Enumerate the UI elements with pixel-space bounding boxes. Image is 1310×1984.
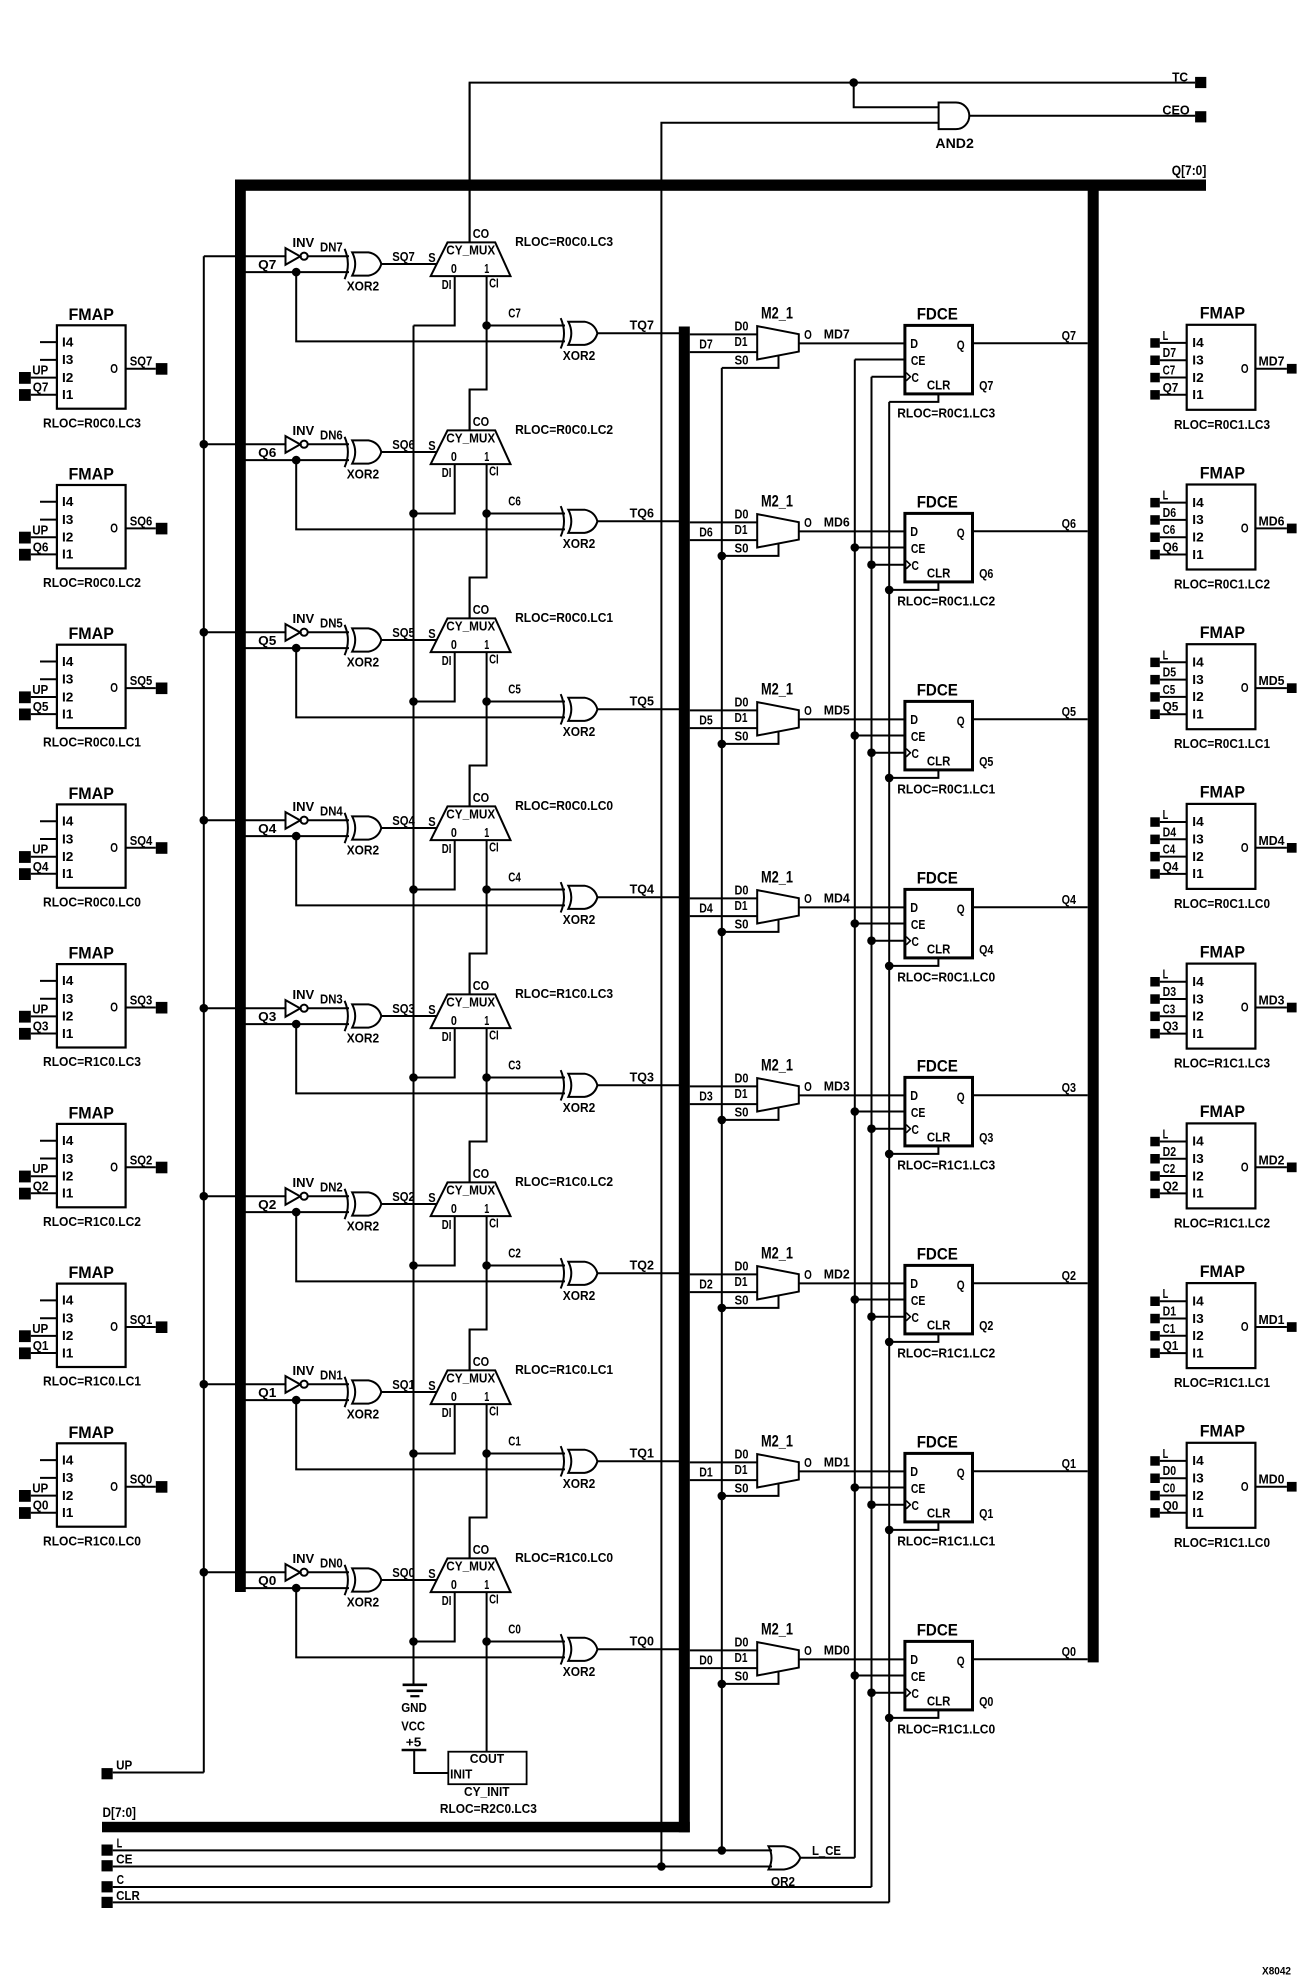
svg-text:FMAP: FMAP: [69, 1104, 114, 1122]
svg-text:MD5: MD5: [1259, 673, 1285, 688]
wire S0 to L rail: [722, 1296, 779, 1308]
svg-text:CI: CI: [489, 652, 499, 667]
svg-text:XOR2: XOR2: [563, 536, 596, 551]
svg-text:FMAP: FMAP: [69, 466, 114, 484]
mux M2_1 (MD3): [735, 1056, 812, 1119]
svg-text:D: D: [910, 1276, 918, 1291]
svg-text:D4: D4: [1163, 824, 1177, 839]
svg-text:L: L: [1163, 647, 1169, 662]
svg-text:UP: UP: [32, 1481, 48, 1496]
junction TC branch to AND2: [849, 78, 858, 87]
svg-text:XOR2: XOR2: [563, 1100, 596, 1115]
svg-text:D1: D1: [735, 522, 748, 537]
svg-text:1: 1: [484, 637, 489, 652]
svg-text:FDCE: FDCE: [917, 1058, 958, 1076]
svg-text:M2_1: M2_1: [761, 1432, 793, 1450]
svg-text:I1: I1: [62, 1026, 73, 1041]
svg-text:Q3: Q3: [1062, 1080, 1076, 1095]
svg-text:D0: D0: [735, 694, 749, 709]
terminal TC: [1195, 77, 1206, 88]
svg-text:SQ6: SQ6: [130, 513, 153, 528]
svg-text:C2: C2: [508, 1246, 521, 1261]
svg-text:O: O: [804, 515, 812, 530]
svg-text:Q1: Q1: [33, 1338, 49, 1353]
wire C from C rail to FDCE: [872, 564, 905, 566]
wire C from C rail to FDCE: [872, 1128, 905, 1130]
svg-text:XOR2: XOR2: [563, 724, 596, 739]
svg-text:CLR: CLR: [927, 566, 951, 581]
svg-text:CY_INIT: CY_INIT: [464, 1784, 510, 1799]
svg-text:Q6: Q6: [979, 566, 993, 581]
svg-text:I3: I3: [1192, 353, 1203, 368]
wire CI pin down to C3 junction: [486, 1028, 488, 1077]
svg-text:RLOC=R0C1.LC0: RLOC=R0C1.LC0: [897, 970, 995, 985]
svg-text:M2_1: M2_1: [761, 680, 793, 698]
wire DI pin to GND rail: [414, 1216, 455, 1265]
svg-text:M2_1: M2_1: [761, 492, 793, 510]
junction CLR rail row 4: [885, 962, 894, 971]
wire C from C rail to FDCE: [872, 1504, 905, 1506]
svg-text:MD0: MD0: [824, 1643, 850, 1658]
wire CI pin down to C6 junction: [486, 464, 488, 513]
svg-text:RLOC=R0C1.LC3: RLOC=R0C1.LC3: [1174, 417, 1270, 432]
svg-text:DN6: DN6: [320, 428, 343, 443]
svg-text:CLR: CLR: [927, 754, 951, 769]
wire C rail to FDCE C inputs (x=871.5): [871, 377, 873, 1887]
wire Q2 feedback down to TQ XOR2: [296, 1212, 565, 1281]
svg-text:Q: Q: [957, 1090, 965, 1105]
svg-text:I1: I1: [1192, 1505, 1203, 1520]
wire carry chain C1 down to CO0: [470, 1454, 487, 1559]
wire MD6 from M2_1 O to FDCE D: [799, 530, 905, 532]
wire UP rail to INV DN0 input: [204, 1571, 286, 1573]
mux M2_1 (MD4): [735, 868, 812, 931]
svg-text:Q[7:0]: Q[7:0]: [1172, 162, 1207, 178]
svg-text:I1: I1: [1192, 707, 1203, 722]
svg-text:D0: D0: [735, 1634, 749, 1649]
svg-text:RLOC=R0C1.LC2: RLOC=R0C1.LC2: [1174, 577, 1270, 592]
wire CI pin down to C5 junction: [486, 652, 488, 701]
svg-text:Q6: Q6: [1163, 540, 1179, 555]
FMAP MD7 (RLOC=R0C1.LC3): [1150, 305, 1296, 432]
svg-text:O: O: [110, 1159, 118, 1174]
svg-text:D6: D6: [1163, 505, 1177, 520]
junction CE rail row 0: [851, 1671, 860, 1680]
svg-text:RLOC=R1C0.LC3: RLOC=R1C0.LC3: [515, 986, 613, 1001]
wire Q3 from FDCE to Q bus: [973, 1094, 1088, 1096]
junction Q7 feedback branch: [292, 268, 301, 277]
flip-flop FDCE Q5 (RLOC=R0C1.LC1): [905, 682, 973, 770]
svg-text:I4: I4: [1192, 814, 1204, 829]
svg-text:C1: C1: [1163, 1321, 1176, 1336]
junction node C2: [482, 1261, 491, 1270]
svg-text:O: O: [110, 361, 118, 376]
svg-text:O: O: [804, 1267, 812, 1282]
svg-text:S0: S0: [735, 729, 749, 744]
svg-text:RLOC=R0C1.LC1: RLOC=R0C1.LC1: [1174, 736, 1270, 751]
junction CLR rail row 2: [885, 1338, 894, 1347]
svg-text:CO: CO: [473, 1354, 489, 1369]
svg-text:CE: CE: [911, 1481, 926, 1496]
svg-text:I2: I2: [1192, 370, 1203, 385]
svg-text:L: L: [1163, 488, 1169, 503]
junction Q2 feedback branch: [292, 1208, 301, 1217]
svg-text:RLOC=R0C0.LC2: RLOC=R0C0.LC2: [43, 575, 141, 590]
svg-text:D1: D1: [735, 710, 748, 725]
svg-text:Q7: Q7: [1163, 380, 1179, 395]
svg-text:S: S: [428, 1566, 436, 1581]
svg-text:Q0: Q0: [258, 1573, 276, 1588]
svg-text:I2: I2: [1192, 689, 1203, 704]
mux M2_1 (MD0): [735, 1620, 812, 1683]
svg-text:XOR2: XOR2: [347, 1595, 380, 1610]
svg-text:TQ6: TQ6: [630, 506, 654, 521]
svg-text:SQ1: SQ1: [130, 1312, 153, 1327]
svg-text:FDCE: FDCE: [917, 306, 958, 324]
svg-text:OR2: OR2: [771, 1874, 795, 1889]
svg-text:DI: DI: [442, 465, 452, 480]
svg-text:CI: CI: [489, 1028, 499, 1043]
wire Q3 feedback down to TQ XOR2: [296, 1024, 565, 1093]
svg-text:MD2: MD2: [824, 1267, 850, 1282]
wire CE from L_CE rail to FDCE: [855, 547, 905, 549]
svg-text:Q3: Q3: [258, 1009, 276, 1024]
wire TQ2 to TQ/D bus: [597, 1272, 679, 1274]
svg-text:I2: I2: [62, 1328, 73, 1343]
svg-text:Q4: Q4: [979, 942, 994, 957]
svg-text:XOR2: XOR2: [347, 1031, 380, 1046]
svg-text:Q7: Q7: [33, 380, 49, 395]
svg-text:TQ0: TQ0: [630, 1634, 654, 1649]
svg-text:RLOC=R0C0.LC1: RLOC=R0C0.LC1: [515, 610, 613, 625]
flip-flop FDCE Q6 (RLOC=R0C1.LC2): [905, 494, 973, 582]
svg-text:1: 1: [484, 825, 489, 840]
wire CLR from CLR rail to FDCE: [889, 582, 938, 590]
terminal C: [102, 1881, 113, 1892]
svg-text:I1: I1: [62, 547, 73, 562]
svg-text:CLR: CLR: [927, 378, 951, 393]
svg-text:C7: C7: [1163, 363, 1176, 378]
wire CE from L_CE rail to FDCE: [855, 359, 905, 361]
svg-text:DI: DI: [442, 1405, 452, 1420]
svg-text:C: C: [912, 1498, 920, 1513]
svg-text:INV: INV: [293, 987, 315, 1002]
svg-text:S: S: [428, 814, 436, 829]
svg-text:CO: CO: [473, 414, 489, 429]
svg-text:1: 1: [484, 1577, 489, 1592]
svg-text:C7: C7: [508, 306, 521, 321]
svg-text:I2: I2: [1192, 1009, 1203, 1024]
svg-text:O: O: [1241, 1319, 1249, 1334]
svg-text:S: S: [428, 1002, 436, 1017]
wire TQ4 from bus to M2_1 D0: [690, 897, 757, 899]
wire CI pin down to C7 junction: [486, 276, 488, 325]
wire DN1 from INV to XOR2: [308, 1383, 349, 1385]
wire TC net from carry chain CO7 to TC terminal: [470, 83, 1196, 243]
svg-text:O: O: [110, 1000, 118, 1015]
FMAP MD1 (RLOC=R1C1.LC1): [1150, 1263, 1296, 1390]
svg-text:CI: CI: [489, 1592, 499, 1607]
wire TQ0 to TQ/D bus: [597, 1648, 679, 1650]
junction DI/GND rail row 1: [409, 1449, 418, 1458]
svg-text:S: S: [428, 1378, 436, 1393]
junction node C3: [482, 1073, 491, 1082]
svg-text:I1: I1: [62, 706, 73, 721]
xor-gate XOR2 (TQ7): [561, 318, 598, 363]
junction C rail row 0: [867, 1688, 876, 1697]
svg-text:FMAP: FMAP: [1200, 943, 1245, 961]
wire DI pin to GND rail: [414, 464, 455, 513]
carry-mux CY_MUX (RLOC=R1C0.LC2): [431, 1166, 511, 1232]
wire DN5 from INV to XOR2: [308, 631, 349, 633]
terminal UP: [102, 1768, 113, 1779]
wire DN3 from INV to XOR2: [308, 1007, 349, 1009]
wire C6 to TQ XOR2: [487, 513, 565, 515]
svg-text:RLOC=R0C0.LC1: RLOC=R0C0.LC1: [43, 735, 141, 750]
wire C from C rail to FDCE: [872, 1692, 905, 1694]
junction CLR rail row 3: [885, 1150, 894, 1159]
wire TQ7 from bus to M2_1 D0: [690, 333, 757, 335]
svg-text:C: C: [912, 1686, 920, 1701]
svg-text:CY_MUX: CY_MUX: [446, 620, 496, 634]
xor-gate XOR2 (TQ4): [561, 882, 598, 927]
wire CO2 up from CY_MUX: [469, 1142, 471, 1183]
svg-text:I1: I1: [1192, 1026, 1203, 1041]
svg-text:Q: Q: [957, 714, 965, 729]
xor-gate XOR2 (SQ5): [345, 625, 382, 670]
wire SQ2 from XOR2 to CY_MUX S: [381, 1203, 437, 1205]
svg-text:CO: CO: [473, 790, 489, 805]
svg-text:CE: CE: [911, 1669, 926, 1684]
svg-text:XOR2: XOR2: [563, 1288, 596, 1303]
mux M2_1 (MD6): [735, 492, 812, 555]
svg-text:RLOC=R0C0.LC0: RLOC=R0C0.LC0: [515, 798, 613, 813]
junction CE rail row 2: [851, 1295, 860, 1304]
svg-text:XOR2: XOR2: [347, 843, 380, 858]
svg-text:I2: I2: [1192, 849, 1203, 864]
svg-text:I1: I1: [62, 866, 73, 881]
svg-text:RLOC=R0C1.LC3: RLOC=R0C1.LC3: [897, 406, 995, 421]
svg-text:CEO: CEO: [1162, 102, 1189, 117]
svg-text:Q2: Q2: [258, 1197, 276, 1212]
xor-gate XOR2 (SQ2): [345, 1189, 382, 1234]
mux M2_1 (MD2): [735, 1244, 812, 1307]
svg-text:D0: D0: [735, 1258, 749, 1273]
svg-text:CE: CE: [116, 1851, 133, 1866]
svg-text:CLR: CLR: [927, 1130, 951, 1145]
and-gate AND2: [939, 103, 970, 130]
wire CO1 up from CY_MUX: [469, 1330, 471, 1371]
svg-text:0: 0: [451, 637, 457, 652]
svg-text:I3: I3: [62, 991, 73, 1006]
svg-text:Q: Q: [957, 902, 965, 917]
svg-text:Q3: Q3: [33, 1019, 49, 1034]
svg-text:0: 0: [451, 1013, 457, 1028]
svg-text:C6: C6: [1163, 522, 1176, 537]
svg-text:M2_1: M2_1: [761, 1620, 793, 1638]
wire CO6 up from CY_MUX: [469, 390, 471, 431]
svg-text:Q6: Q6: [33, 539, 49, 554]
svg-text:SQ4: SQ4: [392, 813, 415, 828]
wire CEO output: [969, 115, 1195, 117]
svg-text:CI: CI: [489, 1216, 499, 1231]
svg-text:0: 0: [451, 825, 457, 840]
junction node C4: [482, 885, 491, 894]
wire TQ6 to TQ/D bus: [597, 520, 679, 522]
svg-text:C3: C3: [1163, 1001, 1176, 1016]
svg-text:RLOC=R1C1.LC3: RLOC=R1C1.LC3: [897, 1158, 995, 1173]
FMAP MD3 (RLOC=R1C1.LC3): [1150, 943, 1296, 1070]
junction S0/L rail row 1: [718, 1492, 727, 1501]
wire D7 from bus to M2_1 D1: [690, 351, 757, 353]
svg-text:S0: S0: [735, 917, 749, 932]
svg-text:CY_MUX: CY_MUX: [446, 808, 496, 822]
svg-text:C0: C0: [508, 1622, 521, 1637]
svg-text:I1: I1: [62, 1345, 73, 1360]
wire SQ3 from XOR2 to CY_MUX S: [381, 1015, 437, 1017]
wire carry chain C3 down to CO2: [470, 1078, 487, 1183]
svg-text:I4: I4: [62, 654, 74, 669]
wire UP rail (x=204): [203, 256, 205, 1772]
FMAP MD6 (RLOC=R0C1.LC2): [1150, 464, 1296, 591]
svg-text:M2_1: M2_1: [761, 1056, 793, 1074]
svg-text:S0: S0: [735, 1481, 749, 1496]
wire CLR rail to FDCE CLR inputs (x=889): [888, 402, 890, 1903]
flip-flop FDCE Q2 (RLOC=R1C1.LC2): [905, 1246, 973, 1334]
wire CI pin down to C0 junction: [486, 1592, 488, 1641]
wire Q5 from FDCE to Q bus: [973, 718, 1088, 720]
svg-text:FMAP: FMAP: [69, 625, 114, 643]
wire CE from L_CE rail to FDCE: [855, 923, 905, 925]
svg-text:CE: CE: [911, 353, 926, 368]
svg-text:GND: GND: [401, 1700, 427, 1715]
svg-text:CI: CI: [489, 840, 499, 855]
junction CE rail row 1: [851, 1483, 860, 1492]
svg-text:I1: I1: [62, 1505, 73, 1520]
svg-text:TQ7: TQ7: [630, 318, 654, 333]
svg-text:XOR2: XOR2: [563, 1476, 596, 1491]
svg-text:DN7: DN7: [320, 240, 343, 255]
svg-text:1: 1: [484, 261, 489, 276]
svg-text:FMAP: FMAP: [1200, 624, 1245, 642]
svg-text:CE: CE: [911, 541, 926, 556]
FMAP MD0 (RLOC=R1C1.LC0): [1150, 1423, 1296, 1550]
svg-text:Q7: Q7: [979, 378, 993, 393]
svg-text:Q2: Q2: [33, 1178, 49, 1193]
wire TQ3 to TQ/D bus: [597, 1084, 679, 1086]
FMAP SQ1 (RLOC=R1C0.LC1): [19, 1264, 167, 1389]
svg-text:I3: I3: [1192, 832, 1203, 847]
wire SQ5 from XOR2 to CY_MUX S: [381, 639, 437, 641]
svg-text:INV: INV: [293, 611, 315, 626]
junction C rail row 2: [867, 1312, 876, 1321]
svg-text:DN3: DN3: [320, 992, 343, 1007]
svg-text:CLR: CLR: [927, 1506, 951, 1521]
svg-text:S: S: [428, 438, 436, 453]
svg-text:SQ4: SQ4: [130, 833, 153, 848]
wire TC to AND2 input 1: [854, 83, 939, 108]
svg-text:Q7: Q7: [258, 257, 276, 272]
xor-gate XOR2 (SQ6): [345, 437, 382, 482]
bus Q[7:0] top horizontal: [235, 180, 1206, 191]
wire MD5 from M2_1 O to FDCE D: [799, 718, 905, 720]
svg-text:O: O: [1241, 840, 1249, 855]
bus TQ/D middle vertical: [679, 327, 690, 1833]
svg-text:D0: D0: [735, 882, 749, 897]
wire DN2 from INV to XOR2: [308, 1195, 349, 1197]
svg-text:Q: Q: [957, 1654, 965, 1669]
svg-text:Q0: Q0: [33, 1498, 49, 1513]
svg-text:0: 0: [451, 1577, 457, 1592]
svg-text:RLOC=R0C1.LC0: RLOC=R0C1.LC0: [1174, 896, 1270, 911]
svg-text:I1: I1: [1192, 547, 1203, 562]
svg-text:Q2: Q2: [1062, 1268, 1076, 1283]
svg-text:FDCE: FDCE: [917, 1622, 958, 1640]
svg-text:CO: CO: [473, 226, 489, 241]
svg-text:Q: Q: [957, 338, 965, 353]
svg-text:O: O: [1241, 1159, 1249, 1174]
svg-text:Q3: Q3: [979, 1130, 993, 1145]
svg-text:RLOC=R1C0.LC0: RLOC=R1C0.LC0: [43, 1533, 141, 1548]
svg-text:Q2: Q2: [979, 1318, 993, 1333]
svg-text:DN0: DN0: [320, 1556, 343, 1571]
junction DI/GND rail row 6: [409, 509, 418, 518]
svg-text:S0: S0: [735, 1293, 749, 1308]
svg-text:+5: +5: [406, 1734, 422, 1749]
carry-mux CY_MUX (RLOC=R1C0.LC0): [431, 1542, 511, 1608]
svg-text:FDCE: FDCE: [917, 1246, 958, 1264]
svg-text:INV: INV: [293, 235, 315, 250]
svg-text:FMAP: FMAP: [69, 1264, 114, 1282]
svg-text:L: L: [117, 1836, 123, 1851]
svg-text:DN1: DN1: [320, 1368, 343, 1383]
svg-text:AND2: AND2: [935, 135, 974, 151]
wire TQ4 to TQ/D bus: [597, 896, 679, 898]
svg-text:I1: I1: [1192, 1186, 1203, 1201]
svg-text:FMAP: FMAP: [69, 306, 114, 324]
wire CE from L_CE rail to FDCE: [855, 735, 905, 737]
wire CO0 up from CY_MUX: [469, 1518, 471, 1559]
svg-text:Q2: Q2: [1163, 1178, 1179, 1193]
junction DI/GND rail row 4: [409, 885, 418, 894]
FMAP SQ7 (RLOC=R0C0.LC3): [19, 306, 167, 431]
svg-text:I4: I4: [1192, 335, 1204, 350]
svg-text:RLOC=R1C1.LC0: RLOC=R1C1.LC0: [1174, 1535, 1270, 1550]
wire VCC to CY_INIT INIT pin: [414, 1750, 448, 1773]
svg-text:O: O: [1241, 680, 1249, 695]
svg-text:D0: D0: [735, 318, 749, 333]
wire L input to OR2: [113, 1849, 772, 1851]
svg-text:O: O: [1241, 521, 1249, 536]
svg-text:Q5: Q5: [1062, 704, 1076, 719]
svg-text:RLOC=R0C0.LC0: RLOC=R0C0.LC0: [43, 894, 141, 909]
junction Q4 feedback branch: [292, 832, 301, 841]
svg-text:I4: I4: [62, 1452, 74, 1467]
svg-text:M2_1: M2_1: [761, 1244, 793, 1262]
wire CE from L_CE rail to FDCE: [855, 1111, 905, 1113]
FMAP SQ3 (RLOC=R1C0.LC3): [19, 945, 167, 1070]
wire carry chain C6 down to CO5: [470, 514, 487, 619]
wire COUT to C0 junction: [486, 1642, 488, 1752]
svg-text:I3: I3: [62, 1470, 73, 1485]
svg-text:I2: I2: [62, 530, 73, 545]
svg-text:C1: C1: [508, 1434, 521, 1449]
wire Q5 feedback down to TQ XOR2: [296, 648, 565, 717]
svg-text:SQ6: SQ6: [392, 437, 415, 452]
svg-text:RLOC=R1C0.LC0: RLOC=R1C0.LC0: [515, 1550, 613, 1565]
svg-text:RLOC=R1C0.LC2: RLOC=R1C0.LC2: [43, 1214, 141, 1229]
wire D1 from bus to M2_1 D1: [690, 1479, 757, 1481]
